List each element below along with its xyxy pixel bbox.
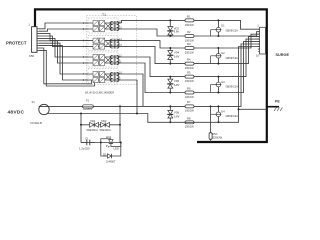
svg-text:520K/W: 520K/W (213, 136, 223, 140)
gas discharge tube G1 (215, 19, 238, 37)
wire pin10 below module (39, 50, 95, 86)
svg-text:VD2: VD2 (101, 119, 107, 123)
svg-text:VD4: VD4 (174, 51, 180, 55)
resistor R2 (185, 30, 194, 42)
wire T1 ch1 B to surge pin2 (136, 29, 260, 36)
svg-text:R5: R5 (187, 71, 191, 75)
svg-text:R6: R6 (187, 87, 191, 91)
svg-text:1.2u/250: 1.2u/250 (79, 146, 90, 150)
wire 48V minus bond to ground bus (239, 108, 267, 110)
resistor R1 (185, 15, 194, 27)
svg-text:1A/250V: 1A/250V (83, 108, 93, 111)
resistor R4 (185, 58, 194, 70)
resistor R6 (185, 87, 194, 99)
svg-text:5KE30CA: 5KE30CA (87, 128, 99, 132)
wire pin9 below module (39, 48, 92, 84)
svg-text:G4: G4 (221, 109, 225, 113)
svg-text:100/1W: 100/1W (185, 125, 194, 129)
wire T1 ch3 A to surge pin5 (136, 39, 260, 77)
svg-text:100/1W: 100/1W (185, 38, 194, 42)
svg-text:48VDC: 48VDC (8, 110, 25, 116)
wire pin5 to T1 ch3 A (39, 38, 88, 57)
wire T1 ch4 B row to surge pin8 (136, 80, 137, 114)
wire power plus row to surge pin7 (39, 44, 260, 106)
wire G1 left electrode stub (211, 29, 217, 31)
wire right rail down (119, 106, 121, 142)
TVS diode VD4a (167, 47, 179, 65)
svg-text:PROTECT: PROTECT (6, 41, 27, 46)
svg-text:GB09/C2A: GB09/C2A (226, 29, 239, 33)
svg-text:LD1: LD1 (106, 135, 112, 139)
svg-text:100/1W: 100/1W (185, 95, 194, 99)
TVS diode VD1 (87, 119, 99, 132)
svg-text:5KE30CA: 5KE30CA (100, 128, 112, 132)
wire T1 ch4 A joins power row (136, 74, 143, 106)
LED LD1 (101, 135, 121, 151)
connector X1 power jack (31, 100, 50, 125)
resistor R3 (185, 42, 194, 54)
gas discharge tube G2 (215, 47, 238, 65)
varistor RV1 (209, 105, 222, 142)
resistor R7 (185, 100, 194, 112)
svg-text:R8: R8 (187, 116, 191, 120)
svg-text:R2: R2 (187, 30, 191, 34)
wire G4 left electrode stub (211, 113, 217, 115)
fuse F1 (83, 99, 94, 112)
svg-text:PE: PE (275, 99, 280, 103)
TVS diode VD6 (167, 105, 179, 123)
wire pin8 to T1 ch4 B (39, 46, 88, 80)
svg-text:R3: R3 (187, 42, 191, 46)
wire 48V minus from jack (47, 47, 259, 123)
svg-text:100/1W: 100/1W (185, 79, 194, 83)
connector X2 SURGE (256, 23, 265, 57)
svg-text:DC30A-B: DC30A-B (31, 121, 43, 125)
svg-text:T1: T1 (102, 13, 106, 17)
gas discharge tube G4 (215, 105, 238, 123)
svg-text:100/1W: 100/1W (185, 50, 194, 54)
wire pin7 to T1 ch4 A (39, 43, 88, 74)
svg-text:X1: X1 (32, 100, 36, 104)
wire pin6 to T1 ch3 B (39, 41, 88, 63)
svg-text:WL-BYQ-GLMK 24069DR: WL-BYQ-GLMK 24069DR (85, 91, 115, 95)
wire bottom row (81, 142, 121, 144)
svg-text:100/1W: 100/1W (185, 23, 194, 27)
svg-text:100/1W: 100/1W (185, 108, 194, 112)
node junction LED loop left (100, 142, 102, 144)
svg-text:1N4007: 1N4007 (106, 159, 116, 163)
svg-text:VD5: VD5 (174, 79, 180, 83)
svg-text:GB09/C2A: GB09/C2A (226, 114, 239, 118)
svg-text:G1: G1 (221, 24, 225, 28)
gas discharge tube G3 (215, 76, 238, 94)
connector K50 PROTECT (32, 27, 39, 53)
resistor R5 (185, 71, 194, 83)
transformer T1 channel 2 (83, 36, 136, 51)
transformer T1 channel 3 (83, 52, 136, 67)
transformer T1 channel 1 (83, 18, 136, 33)
svg-text:6.8V: 6.8V (174, 83, 180, 87)
wire TVS row (81, 124, 120, 126)
svg-text:6.8V: 6.8V (174, 55, 180, 59)
svg-text:GB09/C2A: GB09/C2A (226, 85, 239, 89)
svg-text:K50: K50 (29, 54, 35, 58)
ground bus thick wire top/right/bottom (35, 9, 267, 142)
svg-text:VD6: VD6 (174, 111, 180, 115)
svg-text:VD1: VD1 (90, 119, 96, 123)
svg-text:R7: R7 (187, 100, 191, 104)
svg-text:GB09/C2A: GB09/C2A (226, 56, 239, 60)
svg-text:10: 10 (256, 54, 259, 58)
svg-text:RV1: RV1 (213, 132, 219, 136)
TVS diode VD5 (167, 76, 179, 94)
wire T1 ch2 B to surge pin4 (136, 37, 260, 64)
wire T1 ch1 A to surge pin1 (122, 20, 260, 29)
svg-text:F1: F1 (86, 99, 90, 103)
svg-text:100/1W: 100/1W (185, 66, 194, 70)
resistor R8 (185, 116, 194, 128)
wire G3 left electrode stub (211, 84, 217, 86)
diode D1 (103, 152, 116, 163)
svg-text:G2: G2 (221, 51, 225, 55)
node junction minus bond (238, 108, 240, 110)
svg-text:LED: LED (114, 147, 119, 151)
transformer T1 channel 4 (83, 69, 136, 83)
svg-text:6.8V: 6.8V (174, 115, 180, 119)
wire D1 loop (101, 143, 121, 157)
node junction TVS row right (119, 124, 121, 126)
wire pin4 to T1 ch2 B (39, 36, 88, 47)
transformer module T1 outer dashed box (87, 16, 137, 85)
svg-text:R4: R4 (187, 58, 191, 62)
wire T1 ch2 A to surge pin3 (136, 34, 260, 48)
svg-text:R1: R1 (187, 15, 191, 19)
svg-text:C1: C1 (85, 136, 89, 140)
node junction fuse branch (119, 105, 121, 107)
svg-text:D1: D1 (103, 152, 107, 156)
node junction minus rail (80, 113, 82, 115)
TVS diode VD2 (100, 119, 112, 132)
svg-text:6.8V: 6.8V (174, 30, 180, 34)
wire G2 left electrode stub (211, 55, 217, 57)
wire pin2 to T1 ch1 B (39, 29, 88, 31)
wire T1 ch3 B to surge pin6 (136, 42, 260, 93)
svg-text:G3: G3 (221, 80, 225, 84)
svg-text:SURGE: SURGE (276, 53, 290, 57)
node junction LED loop right (120, 142, 122, 144)
TVS diode VD3 (167, 19, 179, 37)
node junction ch4B joins minus (136, 113, 138, 115)
PE stub thick wire (267, 106, 279, 108)
wire left rail down (80, 114, 82, 143)
capacitor C1 (79, 136, 95, 150)
wire pin1 to T1 ch1 A (39, 23, 88, 29)
wire pin3 to T1 ch2 A (39, 34, 88, 41)
earth ground symbol (274, 108, 283, 112)
node junction TVS row left (80, 124, 82, 126)
